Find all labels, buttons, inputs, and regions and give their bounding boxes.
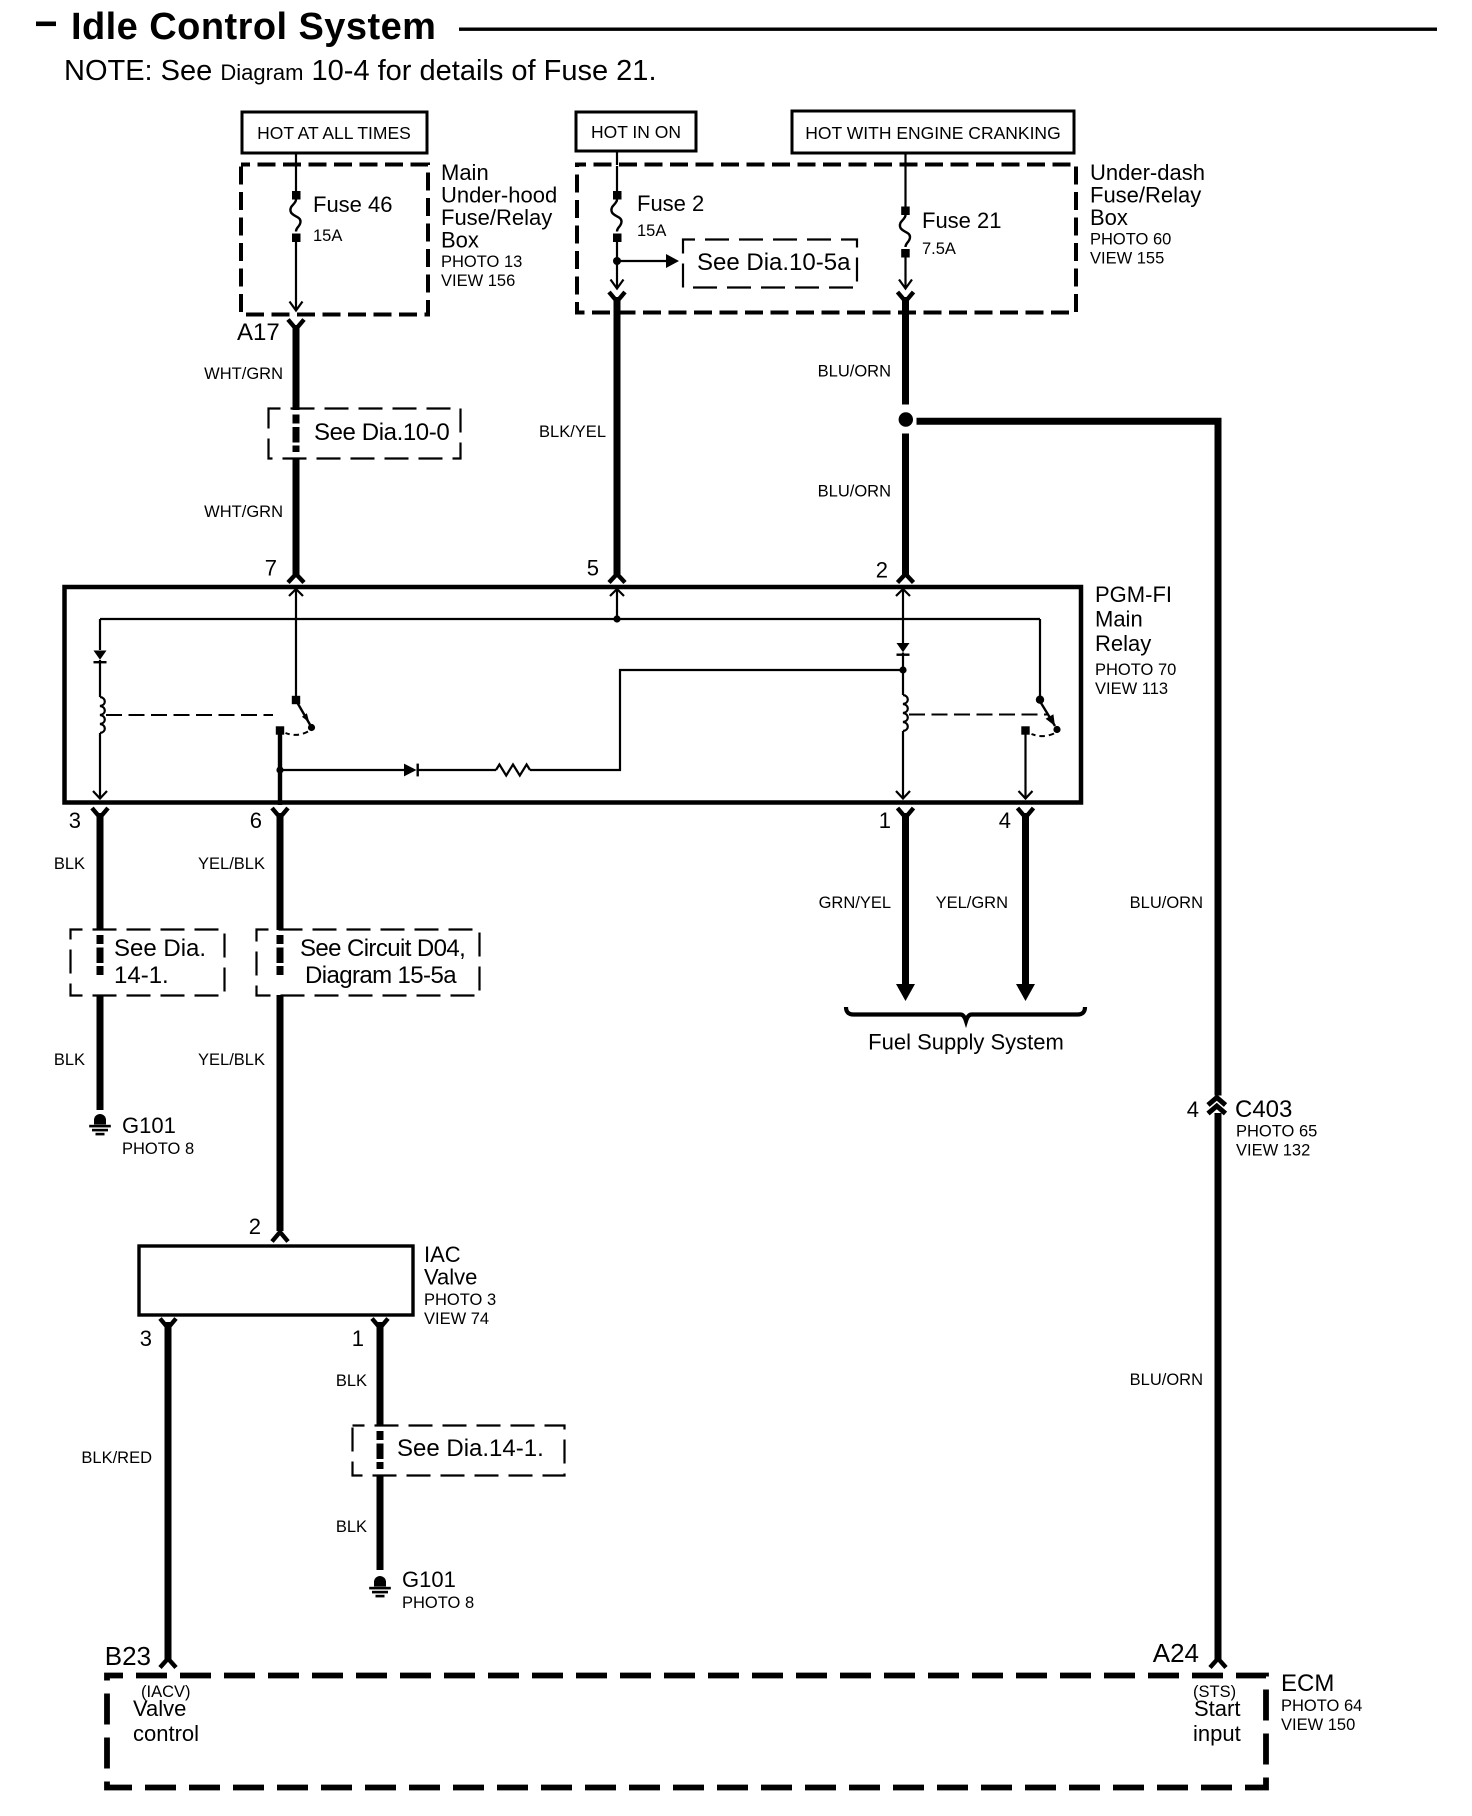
wire BLU/ORN from C403 to ECM [1215, 1113, 1222, 1659]
svg-text:Valve: Valve [133, 1696, 186, 1721]
wire BLK from IAC pin 1 [377, 1322, 384, 1426]
connector at relay pin 4 [1018, 808, 1034, 818]
arrow at pin 4 (inside) [1019, 791, 1033, 799]
svg-text:PHOTO 64: PHOTO 64 [1281, 1697, 1362, 1715]
svg-text:See Circuit D04,: See Circuit D04, [300, 935, 465, 962]
svg-text:Diagram 15-5a: Diagram 15-5a [305, 962, 457, 989]
relay internal wire pin 2 down [902, 589, 904, 643]
junction on BLU/ORN wire [899, 412, 913, 426]
wire BLK to ground G101 [377, 1475, 384, 1570]
coil actuation dashed link (left) [106, 714, 273, 716]
svg-text:Idle Control System: Idle Control System [71, 6, 436, 48]
svg-text:2: 2 [249, 1214, 261, 1239]
wire YEL/GRN to fuel supply [1022, 813, 1029, 986]
header box HOT AT ALL TIMES [242, 112, 427, 153]
svg-text:Under-dash: Under-dash [1090, 160, 1205, 185]
svg-text:IAC: IAC [424, 1242, 461, 1267]
connector at IAC pin 1 [372, 1319, 388, 1329]
title: Idle Control System [36, 22, 56, 27]
svg-text:VIEW 155: VIEW 155 [1090, 250, 1164, 268]
svg-text:Main: Main [441, 160, 489, 185]
wire WHT/GRN lower segment [293, 458, 300, 575]
ECM box (dashed) [107, 1676, 1266, 1788]
relay coil L1 (left) [100, 697, 105, 733]
wire diode to coil [99, 660, 101, 697]
IAC Valve box [139, 1246, 413, 1315]
svg-text:1: 1 [879, 808, 891, 833]
svg-text:BLK: BLK [336, 1518, 367, 1536]
header box HOT IN ON [576, 112, 696, 151]
svg-text:VIEW 150: VIEW 150 [1281, 1716, 1355, 1734]
svg-text:C403: C403 [1235, 1096, 1292, 1123]
svg-text:BLU/ORN: BLU/ORN [818, 483, 891, 501]
junction resistor branch to pin 2 leg [899, 666, 906, 673]
svg-text:See Dia.10-5a: See Dia.10-5a [697, 249, 851, 276]
svg-text:Box: Box [441, 228, 479, 253]
relay switch SW1 alternate position (dashed arc) [286, 732, 309, 735]
svg-text:15A: 15A [313, 227, 342, 245]
svg-text:2: 2 [876, 558, 888, 583]
junction on pin 6 wire [276, 766, 283, 773]
connector at relay pin 2 [898, 574, 914, 583]
wire YEL/BLK upper [277, 813, 284, 930]
dashed wire through See Dia.10-0 box [293, 415, 300, 453]
arrowhead GRN/YEL [896, 984, 915, 1001]
relay switch SW2 moving contact dot [1053, 726, 1060, 733]
svg-text:1: 1 [352, 1326, 364, 1351]
svg-text:YEL/BLK: YEL/BLK [198, 1051, 265, 1069]
connector A24 [1210, 1659, 1226, 1668]
connector at relay pin 6 [272, 808, 288, 818]
relay switch SW1 fixed contact (pin 7) [292, 696, 300, 704]
svg-text:VIEW 132: VIEW 132 [1236, 1142, 1310, 1160]
svg-text:Start: Start [1194, 1696, 1240, 1721]
wire BLU/ORN down right side [1215, 421, 1222, 1095]
coil actuation dashed link (right) [909, 714, 1047, 716]
See Dia. 14-1. reference box (dashed) [71, 930, 225, 996]
ground G101 (right) [369, 1576, 391, 1597]
svg-text:Fuel Supply System: Fuel Supply System [868, 1030, 1064, 1055]
fuse Fuse 2 [611, 166, 621, 287]
relay internal arrow at pin 5 [610, 589, 624, 596]
wire BLK from pin 3 [97, 813, 104, 930]
See Dia.10-0 reference box (dashed) [269, 409, 461, 459]
svg-text:4: 4 [1187, 1097, 1199, 1122]
relay coil L2 (right) [903, 695, 908, 731]
resistor R1 (zigzag) [496, 765, 530, 776]
svg-text:ECM: ECM [1281, 1670, 1334, 1697]
arrowhead YEL/GRN [1016, 984, 1035, 1001]
svg-text:HOT AT ALL TIMES: HOT AT ALL TIMES [257, 123, 411, 143]
connector at relay pin 1 [898, 808, 914, 818]
connector at relay pin 3 [92, 808, 108, 818]
svg-text:WHT/GRN: WHT/GRN [204, 503, 283, 521]
wire diode D2 to resistor R1 [418, 769, 496, 771]
svg-text:BLU/ORN: BLU/ORN [1130, 1371, 1203, 1389]
title rule [459, 28, 1437, 31]
junction pin5 to bus [613, 615, 620, 622]
svg-text:Fuse/Relay: Fuse/Relay [441, 205, 552, 230]
connector at relay pin 7 [288, 574, 304, 583]
svg-text:NOTE: See Diagram 10-4 for det: NOTE: See Diagram 10-4 for details of Fu… [64, 55, 657, 87]
svg-text:7: 7 [265, 556, 277, 581]
wire WHT/GRN upper segment [293, 325, 300, 410]
Under-dash Fuse/Relay Box (dashed) [577, 165, 1076, 313]
relay internal bus wire (top horizontal) [100, 618, 1040, 620]
arrow at pin 1 (inside) [896, 791, 910, 799]
svg-text:B23: B23 [105, 1641, 151, 1671]
svg-text:VIEW 74: VIEW 74 [424, 1310, 489, 1328]
wire stub from HOT IN ON box [616, 151, 618, 165]
svg-text:Main: Main [1095, 607, 1143, 632]
svg-text:GRN/YEL: GRN/YEL [819, 894, 891, 912]
connector A17 [288, 320, 304, 330]
svg-text:PHOTO 65: PHOTO 65 [1236, 1123, 1317, 1141]
See Circuit D04 reference box (dashed) [257, 930, 480, 996]
See Dia.10-5a reference box (dashed) [683, 240, 857, 288]
connector C403 [1208, 1098, 1226, 1114]
svg-text:3: 3 [69, 808, 81, 833]
wire GRN/YEL to fuel supply [902, 813, 909, 986]
wire BLK to ground [97, 995, 104, 1110]
svg-text:Under-hood: Under-hood [441, 183, 557, 208]
svg-text:YEL/GRN: YEL/GRN [936, 894, 1008, 912]
svg-text:BLK: BLK [336, 1372, 367, 1390]
wire BLU/ORN lower to relay pin 2 [902, 434, 909, 576]
svg-text:BLK: BLK [54, 1051, 85, 1069]
relay switch SW1 throw contact (pin 6) [276, 726, 284, 734]
svg-text:BLK/RED: BLK/RED [81, 1449, 152, 1467]
svg-text:4: 4 [999, 808, 1011, 833]
svg-text:Box: Box [1090, 205, 1128, 230]
dashed wire through See Circuit D04 box [277, 935, 284, 975]
svg-text:G101: G101 [402, 1567, 456, 1592]
connector B23 [160, 1659, 176, 1668]
relay switch SW2 arm [1041, 703, 1055, 726]
relay switch SW1 arm [298, 703, 311, 726]
connector at top of BLU/ORN wire [898, 292, 914, 302]
svg-text:A17: A17 [237, 319, 280, 346]
diode D2 (pointing right) [404, 764, 419, 777]
relay internal wire from pin 7 to switch [295, 589, 297, 697]
fuse Fuse 21 [900, 166, 910, 287]
wire BLU/ORN upper [902, 297, 909, 405]
relay switch SW2 throw contact (pin 4) [1021, 726, 1029, 734]
wire YEL/BLK lower to IAC pin 2 [277, 995, 284, 1231]
dashed wire through See Dia.14-1. box [377, 1431, 384, 1469]
svg-text:See Dia.: See Dia. [114, 935, 206, 962]
svg-text:Fuse 21: Fuse 21 [922, 208, 1002, 233]
svg-text:A24: A24 [1153, 1638, 1199, 1668]
svg-text:Valve: Valve [424, 1265, 477, 1290]
arrow at pin 3 (inside) [93, 791, 107, 799]
relay internal arrow at pin 2 [896, 589, 910, 596]
See Dia.14-1. reference box (dashed) [353, 1426, 565, 1476]
dashed wire through See Dia. 14-1. box [97, 935, 104, 975]
diode D1 (left, cathode down) [94, 651, 107, 664]
connector at top of BLK/YEL wire [609, 292, 625, 302]
svg-text:BLK/YEL: BLK/YEL [539, 423, 606, 441]
svg-text:7.5A: 7.5A [922, 240, 956, 258]
arrow at bottom of Fuse 2 [611, 280, 624, 289]
svg-text:Relay: Relay [1095, 631, 1151, 656]
svg-text:G101: G101 [122, 1113, 176, 1138]
svg-text:WHT/GRN: WHT/GRN [204, 365, 283, 383]
svg-text:PHOTO 3: PHOTO 3 [424, 1291, 496, 1309]
wire coil L2 to pin 1 [902, 731, 904, 798]
svg-text:PHOTO 13: PHOTO 13 [441, 253, 522, 271]
svg-text:See Dia.14-1.: See Dia.14-1. [397, 1435, 544, 1462]
svg-text:HOT WITH ENGINE CRANKING: HOT WITH ENGINE CRANKING [805, 123, 1060, 143]
svg-text:input: input [1193, 1721, 1241, 1746]
Main Under-hood Fuse/Relay Box (dashed) [241, 165, 428, 315]
wire BLK/YEL [614, 297, 621, 575]
wire stub from HOT WITH ENGINE CRANKING box [904, 153, 906, 165]
relay internal wire switch to pin 4 [1024, 734, 1026, 798]
svg-text:Fuse/Relay: Fuse/Relay [1090, 183, 1201, 208]
relay internal wire switch to pin 6 [278, 734, 282, 805]
svg-text:14-1.: 14-1. [114, 962, 169, 989]
svg-text:BLU/ORN: BLU/ORN [1130, 894, 1203, 912]
wire BLU/ORN branch to right [917, 418, 1222, 425]
brace Fuel Supply System [846, 1007, 1085, 1021]
wire BLK/RED from IAC pin 3 to B23 [165, 1322, 172, 1660]
svg-text:PHOTO 60: PHOTO 60 [1090, 231, 1171, 249]
PGM-FI Main Relay box [65, 587, 1082, 803]
svg-text:PHOTO 8: PHOTO 8 [122, 1140, 194, 1158]
svg-text:control: control [133, 1721, 199, 1746]
svg-text:VIEW 156: VIEW 156 [441, 272, 515, 290]
connector at IAC pin 2 [272, 1232, 288, 1242]
relay switch SW2 pivot contact dot [1036, 696, 1044, 704]
svg-text:Fuse 46: Fuse 46 [313, 192, 393, 217]
arrow at bottom of Fuse 21 [899, 280, 912, 289]
relay switch SW2 feed wire from bus [1039, 619, 1041, 696]
svg-text:3: 3 [140, 1326, 152, 1351]
svg-text:VIEW 113: VIEW 113 [1095, 680, 1168, 698]
svg-text:YEL/BLK: YEL/BLK [198, 855, 265, 873]
svg-text:BLU/ORN: BLU/ORN [818, 363, 891, 381]
svg-text:BLK: BLK [54, 855, 85, 873]
ground G101 (left) [89, 1114, 111, 1135]
relay internal wire from pin 5 [616, 589, 618, 619]
svg-text:PHOTO 70: PHOTO 70 [1095, 661, 1176, 679]
svg-text:15A: 15A [637, 222, 666, 240]
relay switch SW1 moving contact dot [308, 724, 315, 731]
svg-text:PGM-FI: PGM-FI [1095, 582, 1172, 607]
svg-text:HOT IN ON: HOT IN ON [591, 122, 681, 142]
wire resistor R1 to pin2 leg [530, 670, 901, 770]
svg-text:PHOTO 8: PHOTO 8 [402, 1594, 474, 1612]
wire coil to pin 3 [99, 733, 101, 798]
header box HOT WITH ENGINE CRANKING [792, 111, 1074, 153]
svg-text:See Dia.10-0: See Dia.10-0 [314, 419, 449, 446]
wire stub from HOT AT ALL TIMES box [295, 153, 297, 165]
branch arrow to See Dia.10-5a [617, 260, 667, 262]
svg-text:Fuse 2: Fuse 2 [637, 191, 704, 216]
relay switch SW2 alternate position (dashed arc) [1032, 734, 1055, 737]
junction on Fuse 2 wire [613, 257, 621, 265]
connector at relay pin 5 [609, 574, 625, 583]
arrow at bottom of Fuse 46 [290, 302, 303, 311]
svg-text:6: 6 [250, 808, 262, 833]
fuse Fuse 46 [290, 166, 300, 309]
connector at IAC pin 3 [160, 1319, 176, 1329]
svg-text:5: 5 [587, 556, 599, 581]
relay internal branch wire to diode D2 [282, 769, 404, 771]
diode D3 (right, cathode down) [897, 643, 910, 656]
relay internal arrow at pin 7 [289, 589, 303, 596]
wire diode D3 to coil L2 [902, 653, 904, 696]
relay internal wire left leg [99, 619, 101, 650]
